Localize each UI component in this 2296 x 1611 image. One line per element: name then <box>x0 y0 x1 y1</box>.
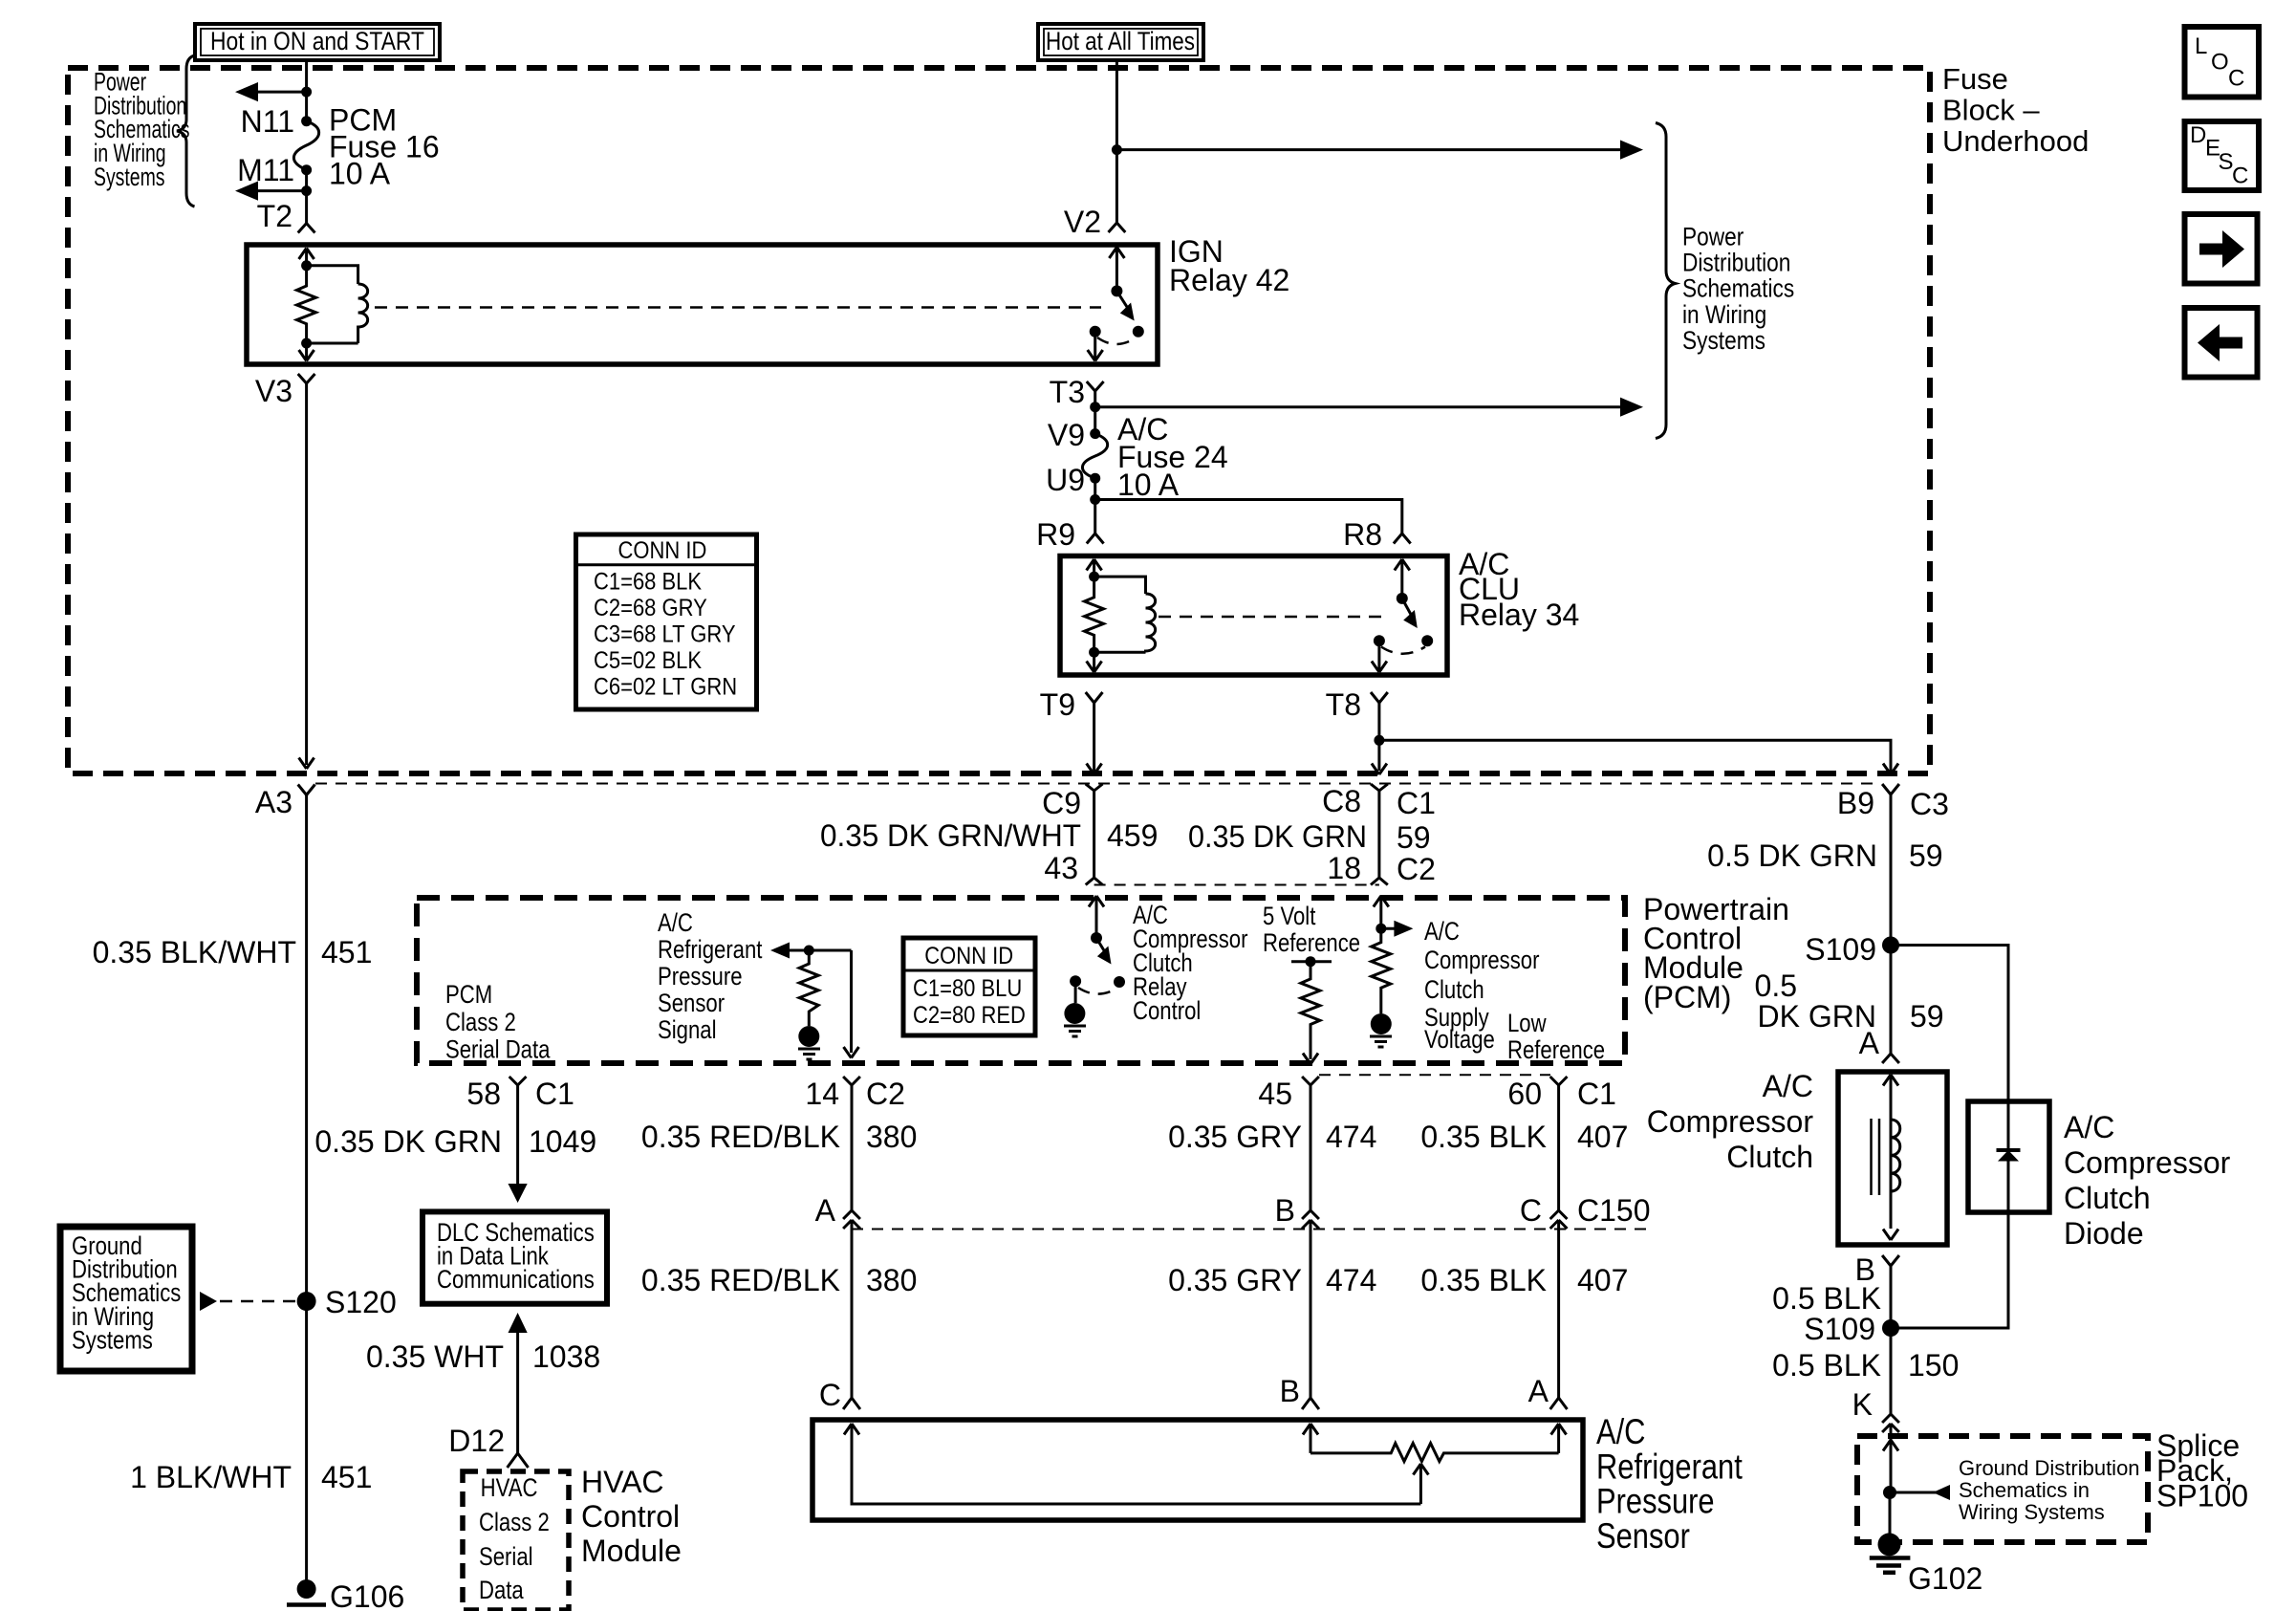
wire: T8 down to junction <box>1377 703 1380 771</box>
svg-text:Sensor: Sensor <box>658 990 725 1018</box>
sensor internal: pin B entry arrow <box>1303 1424 1318 1453</box>
svg-text:Hot at All Times: Hot at All Times <box>1046 27 1195 55</box>
wire: fuse output to T2 <box>305 170 308 224</box>
wire: C150-C down to sensor pin A <box>1557 1220 1560 1398</box>
wire: pin 58 down to DLC reference arrow <box>516 1085 519 1186</box>
PCM internal: supply voltage node with right arrow <box>1375 924 1386 934</box>
svg-text:0.35 DK GRN/WHT: 0.35 DK GRN/WHT <box>820 818 1081 853</box>
arrow entering fuse block boundary (A3 exit) <box>299 758 314 770</box>
svg-text:K: K <box>1852 1387 1873 1422</box>
pin 60 / C1 connector fork <box>1507 1077 1616 1111</box>
svg-text:C3: C3 <box>1910 787 1949 821</box>
svg-text:10 A: 10 A <box>1117 468 1180 502</box>
svg-text:A: A <box>815 1193 836 1228</box>
svg-text:0.5: 0.5 <box>1755 969 1797 1003</box>
svg-text:Voltage: Voltage <box>1424 1026 1495 1055</box>
annotation: Ground Distribution Schematics in Wiring Systems (splice) <box>1959 1456 2140 1524</box>
svg-text:0.35 BLK: 0.35 BLK <box>1420 1263 1547 1297</box>
diode symbol <box>1997 1148 2021 1152</box>
node M11 <box>301 164 312 175</box>
svg-text:PCM: PCM <box>445 981 492 1010</box>
PCM internal: driver throw dashed arc <box>1078 988 1117 994</box>
CLU relay coil top node <box>1089 572 1099 582</box>
node N11 <box>301 116 312 126</box>
CLU relay switch blade with arrowhead <box>1402 599 1415 620</box>
svg-text:Schematics: Schematics <box>1682 274 1794 303</box>
wire: branch right to B9 column <box>1379 740 1891 771</box>
svg-text:0.35 RED/BLK: 0.35 RED/BLK <box>641 1263 840 1297</box>
annotation: PCM Class 2 Serial Data <box>445 981 551 1064</box>
svg-text:407: 407 <box>1577 1263 1628 1297</box>
svg-text:10 A: 10 A <box>329 157 391 191</box>
CLU relay switch fixed contact <box>1374 635 1385 646</box>
wire: T3 down to A/C Fuse 24 <box>1094 391 1096 434</box>
IGN relay switch pivot <box>1111 285 1122 296</box>
clutch internal: exit arrow to pin B <box>1883 1230 1898 1241</box>
icon box arrow right <box>2185 214 2258 284</box>
CONN ID box (PCM connectors) <box>903 938 1035 1035</box>
svg-text:CONN ID: CONN ID <box>618 537 707 564</box>
svg-text:U9: U9 <box>1046 463 1085 497</box>
svg-text:Power: Power <box>1682 223 1744 251</box>
svg-text:1049: 1049 <box>529 1124 596 1159</box>
HVAC control module dashed box <box>463 1471 569 1610</box>
svg-text:D12: D12 <box>448 1424 505 1458</box>
clutch internal: coil winding <box>1891 1120 1900 1191</box>
svg-text:474: 474 <box>1326 1120 1376 1154</box>
svg-text:M11: M11 <box>237 153 294 187</box>
svg-text:0.5 BLK: 0.5 BLK <box>1772 1348 1881 1382</box>
svg-text:45: 45 <box>1258 1077 1292 1111</box>
svg-text:C2=68 GRY: C2=68 GRY <box>594 595 707 621</box>
junction node with off-page arrow (lower) <box>301 185 312 196</box>
splice node S109 (lower) <box>1882 1319 1899 1337</box>
svg-text:Pressure: Pressure <box>1596 1482 1715 1521</box>
CLU relay coil input arrow (pin R9 side) <box>1087 559 1102 577</box>
IGN relay switch throw dashed arc <box>1097 337 1137 344</box>
wire: fuse output down to R9 <box>1094 478 1096 533</box>
label box: Hot in ON and START <box>195 24 440 60</box>
svg-text:Sensor: Sensor <box>1596 1516 1690 1556</box>
svg-text:C2: C2 <box>866 1077 905 1111</box>
svg-text:S109: S109 <box>1804 1312 1875 1346</box>
svg-text:0.5 BLK: 0.5 BLK <box>1772 1281 1881 1316</box>
wire: branch over to R8 <box>1095 500 1402 534</box>
thin dashed connector line between pins 45 and 60 <box>1319 1074 1550 1076</box>
sensor internal: pin A entry arrow <box>1551 1424 1567 1453</box>
svg-text:B: B <box>1280 1374 1300 1408</box>
svg-text:Systems: Systems <box>72 1326 153 1355</box>
svg-text:C8: C8 <box>1322 784 1361 818</box>
svg-text:59: 59 <box>1909 838 1943 873</box>
label box: Hot at All Times <box>1038 24 1203 60</box>
wire: ignition feed from Hot in ON and START to fuse <box>305 60 308 121</box>
svg-text:A/C: A/C <box>1596 1412 1645 1451</box>
pin 58 / C1 connector fork <box>466 1077 574 1111</box>
svg-text:Distribution: Distribution <box>1682 249 1790 277</box>
wire: S109 over to clutch diode <box>1891 946 2008 1102</box>
svg-text:L: L <box>2195 33 2207 59</box>
svg-text:A/C: A/C <box>1763 1069 1813 1103</box>
wire: clutch pin B down to S109 <box>1890 1266 1893 1414</box>
PCM internal: clutch relay control driver entry arrow <box>1089 896 1104 938</box>
wire: V3 down the left column to A3 <box>305 383 308 765</box>
PCM internal: supply voltage sense resistor <box>1372 928 1391 1013</box>
svg-text:Diode: Diode <box>2064 1216 2144 1251</box>
wire: C150-B down to sensor pin B <box>1310 1220 1312 1398</box>
svg-text:B: B <box>1275 1193 1295 1228</box>
svg-text:Class 2: Class 2 <box>445 1009 516 1037</box>
svg-text:Block –: Block – <box>1942 94 2040 127</box>
relay box: A/C CLU Relay 34 <box>1060 556 1447 676</box>
CLU relay switch input arrow (pin R8 side) <box>1395 559 1410 599</box>
svg-text:0.35 GRY: 0.35 GRY <box>1168 1263 1302 1297</box>
junction node T3 branch <box>1090 402 1100 412</box>
svg-text:Signal: Signal <box>658 1016 717 1045</box>
svg-text:C1: C1 <box>1577 1077 1616 1111</box>
PCM internal: driver moving contact <box>1114 976 1125 988</box>
component label: Splice Pack SP100 <box>2156 1428 2248 1513</box>
svg-text:Low: Low <box>1507 1010 1547 1038</box>
svg-text:T9: T9 <box>1040 687 1075 722</box>
svg-text:Systems: Systems <box>1682 326 1765 355</box>
PCM internal: supply voltage ground symbol <box>1370 1013 1392 1047</box>
svg-text:HVAC: HVAC <box>581 1465 664 1499</box>
junction node with off-page arrow (upper) <box>301 87 312 98</box>
fuse F24 A/C Fuse 24 10A <box>1082 434 1107 479</box>
svg-text:Hot in ON and START: Hot in ON and START <box>210 27 424 55</box>
junction node to R8 branch <box>1090 494 1100 505</box>
svg-text:Refrigerant: Refrigerant <box>1596 1448 1743 1487</box>
splice internal node <box>1883 1486 1896 1499</box>
splice node S120 <box>297 1292 316 1311</box>
svg-text:Fuse: Fuse <box>1942 62 2008 96</box>
svg-text:0.35 BLK: 0.35 BLK <box>1420 1120 1547 1154</box>
reference box: Ground Distribution Schematics in Wiring Systems <box>60 1227 192 1371</box>
svg-text:Control: Control <box>581 1499 680 1534</box>
annotation: HVAC Class 2 Serial Data <box>479 1474 550 1605</box>
component label: A/C Refrigerant Pressure Sensor <box>1596 1412 1743 1556</box>
IGN relay coil output arrow (bottom, pin V3 side) <box>299 343 314 361</box>
component box: A/C Refrigerant Pressure Sensor <box>812 1420 1583 1520</box>
annotation: A/C Compressor Clutch Supply Voltage <box>1424 918 1539 1055</box>
svg-text:Clutch: Clutch <box>1424 976 1484 1005</box>
PCM internal: driver switch blade with arrowhead <box>1096 938 1108 956</box>
connector B9/C3 fork <box>1707 784 1949 873</box>
PCM internal: pull-up resistor to ground <box>799 950 818 1026</box>
component label: HVAC Control Module <box>581 1465 682 1568</box>
CLU relay coil (right leg, winding) <box>1094 577 1156 652</box>
svg-text:Underhood: Underhood <box>1942 124 2089 158</box>
svg-text:451: 451 <box>321 935 372 969</box>
svg-text:HVAC: HVAC <box>481 1474 538 1503</box>
svg-text:D: D <box>2190 122 2206 148</box>
svg-text:5 Volt: 5 Volt <box>1263 903 1315 931</box>
icon box arrow left <box>2185 308 2258 378</box>
svg-text:C: C <box>2228 66 2244 92</box>
CLU relay resistor (left leg) <box>1085 577 1104 652</box>
IGN relay coil (right leg, winding) <box>307 266 368 343</box>
svg-text:G106: G106 <box>330 1579 404 1611</box>
relay box: IGN Relay 42 <box>247 245 1158 364</box>
IGN relay switch input arrow (pin V2 side) <box>1109 248 1124 292</box>
svg-text:380: 380 <box>866 1120 917 1154</box>
svg-text:Module: Module <box>581 1534 682 1568</box>
CLU relay switch throw dashed arc <box>1381 647 1425 654</box>
svg-text:Communications: Communications <box>437 1266 595 1295</box>
node V9 <box>1090 428 1100 439</box>
svg-text:A/C: A/C <box>658 909 693 938</box>
svg-text:0.35 BLK/WHT: 0.35 BLK/WHT <box>93 935 296 969</box>
svg-text:C2=80 RED: C2=80 RED <box>913 1002 1026 1029</box>
svg-text:C: C <box>819 1378 841 1412</box>
CLU relay coil bottom node <box>1089 647 1099 658</box>
PCM dashed box: Powertrain Control Module <box>417 898 1625 1063</box>
component label: A/C Compressor Clutch <box>1647 1069 1814 1174</box>
svg-text:Serial Data: Serial Data <box>445 1036 551 1065</box>
fuse block underhood dashed boundary box <box>68 68 1930 773</box>
svg-text:N11: N11 <box>241 104 294 139</box>
component label: A/C Compressor Clutch Diode <box>2064 1110 2231 1251</box>
component box: A/C Compressor Clutch <box>1838 1072 1947 1245</box>
svg-text:(PCM): (PCM) <box>1643 980 1731 1014</box>
splice node S109 (upper) <box>1882 937 1899 954</box>
wire: Hot at All Times feed to V2 <box>1116 60 1118 223</box>
arrow at boundary (B9 column) <box>1883 764 1898 775</box>
svg-text:O: O <box>2211 50 2229 76</box>
svg-text:Compressor: Compressor <box>2064 1145 2231 1180</box>
svg-text:C6=02 LT GRN: C6=02 LT GRN <box>594 673 737 700</box>
svg-text:in Wiring: in Wiring <box>1682 300 1766 329</box>
IGN relay switch output arrow (pin T3 side) <box>1088 332 1103 361</box>
svg-text:S109: S109 <box>1805 932 1876 967</box>
svg-text:V2: V2 <box>1064 205 1101 239</box>
annotation: Low Reference <box>1507 1010 1605 1065</box>
svg-text:B9: B9 <box>1837 786 1874 820</box>
diode wire through box <box>2007 1101 2010 1212</box>
IGN relay actuation dashed link <box>375 306 1101 309</box>
brace right (curly) for Power Distribution reference <box>1656 123 1676 439</box>
IGN relay coil top node <box>301 260 312 271</box>
wire: diode return to S109 <box>1891 1212 2008 1328</box>
svg-text:Systems: Systems <box>94 163 165 191</box>
svg-text:C2: C2 <box>1397 852 1436 886</box>
svg-text:Wiring Systems: Wiring Systems <box>1959 1500 2105 1524</box>
annotation: A/C Compressor Clutch Relay Control <box>1133 902 1247 1026</box>
svg-text:Class 2: Class 2 <box>479 1509 550 1537</box>
svg-text:Schematics in: Schematics in <box>1959 1478 2090 1502</box>
CLU relay switch moving contact <box>1421 635 1433 646</box>
svg-text:18: 18 <box>1327 851 1361 885</box>
svg-text:0.35 DK GRN: 0.35 DK GRN <box>314 1124 502 1159</box>
svg-text:459: 459 <box>1107 818 1158 853</box>
wire with arrow to Power Distribution (lower) <box>1095 405 1626 408</box>
clutch internal: clutch plates <box>1872 1119 1880 1195</box>
svg-text:Refrigerant: Refrigerant <box>658 936 763 965</box>
svg-text:C: C <box>2232 163 2248 189</box>
IGN relay switch blade with arrowhead <box>1116 291 1131 314</box>
svg-text:C5=02 BLK: C5=02 BLK <box>594 647 702 674</box>
svg-text:Pressure: Pressure <box>658 963 743 991</box>
pin 45 connector fork <box>1258 1077 1318 1111</box>
CLU relay switch pivot <box>1397 593 1408 604</box>
PCM internal: 5 volt reference rail and resistor <box>1291 960 1332 963</box>
svg-text:Compressor: Compressor <box>1424 947 1539 975</box>
svg-text:0.35 DK GRN: 0.35 DK GRN <box>1188 819 1367 854</box>
svg-text:451: 451 <box>321 1460 372 1494</box>
IGN relay coil bottom node <box>301 338 312 349</box>
wire: T9 down to fuse block boundary <box>1093 703 1095 771</box>
svg-text:Serial: Serial <box>479 1543 533 1572</box>
ground G102 <box>1870 1533 1911 1572</box>
splice pack dashed box SP100 <box>1857 1436 2148 1542</box>
sensor internal: pin C entry arrow and wiper feed <box>844 1424 1420 1504</box>
svg-text:0.35 GRY: 0.35 GRY <box>1168 1120 1302 1154</box>
svg-text:Data: Data <box>479 1577 524 1605</box>
component label: Fuse Block Underhood <box>1942 62 2089 158</box>
svg-text:CONN ID: CONN ID <box>924 943 1013 969</box>
svg-text:Clutch: Clutch <box>1726 1140 1813 1174</box>
svg-text:T2: T2 <box>257 199 292 233</box>
CLU relay switch output arrow (pin T8 side) <box>1372 641 1387 672</box>
clutch internal: entry arrow from pin A <box>1883 1075 1898 1229</box>
svg-text:1 BLK/WHT: 1 BLK/WHT <box>130 1460 292 1494</box>
svg-text:A/C: A/C <box>2064 1110 2114 1144</box>
svg-text:G102: G102 <box>1908 1561 1982 1596</box>
thin dashed line of connector C150 <box>852 1229 1655 1230</box>
svg-text:Reference: Reference <box>1263 929 1360 958</box>
wire: C150-A down to sensor pin C <box>851 1220 854 1398</box>
fuse F16 PCM Fuse 16 10A <box>293 121 318 170</box>
thin dashed harness line below boundary <box>315 783 1881 785</box>
icon box DESC <box>2185 121 2260 190</box>
svg-text:V9: V9 <box>1048 418 1085 452</box>
node U9 <box>1090 473 1100 484</box>
svg-text:Control: Control <box>1133 997 1201 1026</box>
arrow at boundary (C8 column) <box>1372 764 1387 775</box>
svg-text:S120: S120 <box>325 1285 397 1319</box>
svg-text:474: 474 <box>1326 1263 1376 1297</box>
annotation: 5 Volt Reference <box>1263 903 1360 958</box>
annotation: Power Distribution Schematics in Wiring Systems (right) <box>1682 223 1794 356</box>
junction node to fuse block feed arrow <box>1112 144 1122 155</box>
dashed reference link to S120 with arrow <box>200 1292 217 1311</box>
pin 14 / C2 connector fork <box>805 1077 905 1111</box>
svg-text:R9: R9 <box>1036 517 1075 552</box>
annotation: A/C Refrigerant Pressure Sensor Signal <box>658 909 763 1045</box>
svg-text:59: 59 <box>1910 999 1944 1034</box>
svg-text:Compressor: Compressor <box>1647 1104 1814 1139</box>
arrow at boundary (C9 column) <box>1087 764 1102 775</box>
thin dashed connector band bottom <box>1094 884 1379 886</box>
svg-text:C1: C1 <box>535 1077 574 1111</box>
CLU relay actuation dashed link <box>1159 616 1389 619</box>
svg-text:C9: C9 <box>1042 786 1081 820</box>
svg-text:T3: T3 <box>1050 375 1085 409</box>
wire: K into splice pack with entry arrow <box>1883 1424 1898 1492</box>
PCM internal: driver ground symbol <box>1074 981 1077 1003</box>
svg-text:C150: C150 <box>1577 1193 1651 1228</box>
svg-text:60: 60 <box>1507 1077 1542 1111</box>
CLU relay coil output arrow (pin T9 side) <box>1087 652 1102 672</box>
wire: splice node down to G102 <box>1889 1492 1892 1544</box>
wire: pin 60 down to C150 <box>1557 1085 1560 1210</box>
svg-text:Clutch: Clutch <box>2064 1181 2151 1215</box>
svg-text:C3=68 LT GRY: C3=68 LT GRY <box>594 620 736 647</box>
svg-text:58: 58 <box>466 1077 501 1111</box>
svg-text:R8: R8 <box>1343 517 1382 552</box>
svg-text:0.35 RED/BLK: 0.35 RED/BLK <box>641 1120 840 1154</box>
PCM internal: wire down to pin 14 with exit arrow <box>844 950 859 1058</box>
brace left (curly) <box>177 55 195 207</box>
svg-text:SP100: SP100 <box>2156 1478 2248 1513</box>
wire with arrow to Power Distribution (upper) <box>1116 148 1626 151</box>
junction node T8 branch to B9 <box>1374 735 1384 746</box>
svg-text:A/C: A/C <box>1424 918 1460 947</box>
CONN ID legend box (fuse block connectors) <box>576 534 757 709</box>
svg-text:Ground Distribution: Ground Distribution <box>1959 1456 2140 1480</box>
wire: pin 14 down to C150 <box>851 1085 854 1210</box>
PCM internal: driver switch pivot <box>1091 932 1102 944</box>
svg-text:407: 407 <box>1577 1120 1628 1154</box>
svg-text:A: A <box>1528 1374 1549 1408</box>
wire: B9 down to S109 <box>1890 795 1893 1054</box>
svg-text:C1=80 BLU: C1=80 BLU <box>913 975 1022 1002</box>
wire: A3 down to G106 <box>305 795 308 1590</box>
svg-text:Reference: Reference <box>1507 1036 1605 1065</box>
IGN relay coil input arrow (top, pin T2 side) <box>299 249 314 266</box>
svg-text:C: C <box>1520 1193 1542 1228</box>
wire: pin 45 down to C150 <box>1310 1085 1312 1210</box>
PCM internal: 5V exit arrow to pin 45 <box>1303 1054 1318 1065</box>
svg-text:0.5 DK GRN: 0.5 DK GRN <box>1707 838 1877 873</box>
svg-text:150: 150 <box>1908 1348 1959 1382</box>
svg-text:A3: A3 <box>255 785 292 819</box>
svg-text:Relay 34: Relay 34 <box>1459 598 1579 632</box>
svg-text:43: 43 <box>1044 851 1078 885</box>
annotation: Power Distribution Schematics in Wiring Systems (top left) <box>94 67 189 190</box>
IGN relay switch fixed contact <box>1090 326 1101 337</box>
ground G106 <box>287 1579 326 1611</box>
svg-text:T8: T8 <box>1326 687 1361 722</box>
svg-text:C1=68 BLK: C1=68 BLK <box>594 568 702 595</box>
PCM internal: signal ground symbol <box>798 1026 820 1059</box>
svg-text:Relay 42: Relay 42 <box>1169 263 1289 297</box>
component box: A/C Compressor Clutch Diode <box>1968 1101 2049 1212</box>
icon box LOC <box>2185 27 2260 98</box>
PCM internal: driver fixed contact <box>1070 975 1081 987</box>
wire: HVAC serial data up to DLC box <box>509 1313 528 1333</box>
in-line connector C9 (fork pair) <box>820 784 1158 885</box>
splice internal reference arrow <box>1890 1491 1948 1494</box>
PCM internal: clutch supply voltage entry arrow <box>1374 896 1389 928</box>
sensor internal: potentiometer resistive element <box>1310 1444 1559 1462</box>
svg-text:59: 59 <box>1397 820 1431 855</box>
reference box: DLC Schematics in Data Link Communications <box>422 1211 607 1303</box>
svg-text:V3: V3 <box>255 374 292 408</box>
in-line connector C8/C1-C2 (fork pair) <box>1188 784 1436 886</box>
svg-text:1038: 1038 <box>532 1339 600 1374</box>
svg-text:C1: C1 <box>1397 786 1436 820</box>
IGN relay resistor (left leg) <box>297 266 316 343</box>
PCM internal: sensor signal node with left arrow <box>770 943 790 959</box>
svg-text:380: 380 <box>866 1263 917 1297</box>
svg-text:0.35 WHT: 0.35 WHT <box>366 1339 504 1374</box>
IGN relay switch moving contact <box>1133 326 1144 337</box>
sensor internal: wiper arrow <box>1413 1464 1428 1504</box>
svg-text:14: 14 <box>805 1077 839 1111</box>
svg-text:A: A <box>1859 1026 1880 1060</box>
